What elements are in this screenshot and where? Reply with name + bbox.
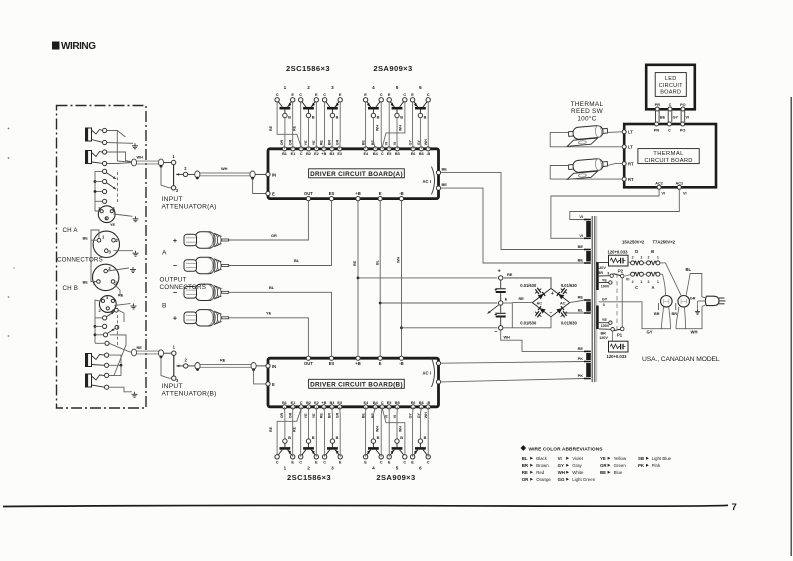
svg-text:0.01/630: 0.01/630 — [561, 320, 578, 325]
svg-text:2SC1586×3: 2SC1586×3 — [287, 473, 331, 482]
svg-text:Light Blue: Light Blue — [652, 456, 672, 461]
svg-text:VI: VI — [558, 456, 562, 461]
svg-text:RE: RE — [578, 346, 584, 351]
snubber cap SW 0.01/630 — [520, 311, 541, 325]
svg-text:B: B — [377, 115, 380, 120]
svg-text:THERMAL: THERMAL — [571, 101, 604, 108]
ground lower B — [132, 392, 138, 398]
wire BE1 board A to transformer — [441, 173, 584, 250]
svg-text:VI: VI — [662, 192, 666, 196]
svg-text:PO: PO — [680, 129, 686, 133]
svg-text:Violet: Violet — [572, 456, 584, 461]
attenuator B shield to terminal 3 — [161, 357, 171, 378]
svg-text:B: B — [312, 435, 315, 440]
svg-text:YE: YE — [304, 413, 308, 418]
svg-text:WH: WH — [399, 426, 403, 432]
svg-text:E: E — [379, 361, 382, 366]
phone jack B2 — [86, 374, 105, 387]
svg-text:Red: Red — [536, 470, 545, 475]
snubber cap NE 0.01/630 — [561, 283, 578, 294]
svg-text:100V: 100V — [601, 285, 610, 289]
circuit breaker SW2 — [678, 296, 690, 308]
svg-text:+: + — [551, 291, 554, 297]
svg-text:B: B — [424, 115, 427, 120]
svg-text:120V: 120V — [599, 336, 608, 340]
board A right pins BE BE / AC1 — [423, 167, 448, 195]
svg-text:5: 5 — [396, 465, 399, 470]
svg-text:E: E — [315, 92, 318, 97]
svg-text:BE: BE — [442, 167, 448, 172]
svg-text:GR: GR — [335, 139, 339, 145]
svg-text:B: B — [400, 435, 403, 440]
svg-text:-B: -B — [426, 152, 430, 156]
thermal board pins AC2 — [655, 181, 683, 189]
svg-text:PK: PK — [578, 373, 584, 378]
board A color labels — [280, 139, 428, 145]
transistor Q4 (board B) — [363, 435, 383, 470]
svg-text:0.01/630: 0.01/630 — [520, 320, 537, 325]
wire PK2 board B to transformer — [441, 379, 584, 382]
board B pin IN — [266, 364, 276, 369]
svg-text:E1: E1 — [291, 152, 296, 156]
svg-text:WIRE COLOR ABBREVIATIONS: WIRE COLOR ABBREVIATIONS — [529, 446, 604, 452]
svg-text:6: 6 — [419, 465, 422, 470]
svg-text:B: B — [651, 249, 654, 254]
jack A2 contacts — [103, 150, 107, 166]
svg-text:THERMAL: THERMAL — [653, 151, 684, 157]
wire -B branch to supply — [402, 327, 498, 329]
AC power plug — [690, 296, 726, 306]
svg-text:GY: GY — [558, 463, 564, 468]
svg-text:LED: LED — [665, 76, 677, 82]
svg-text:E: E — [272, 191, 275, 196]
svg-text:DRIVER CIRCUIT BOARD(B): DRIVER CIRCUIT BOARD(B) — [310, 381, 403, 388]
svg-text:B: B — [424, 435, 427, 440]
svg-text:White: White — [572, 470, 584, 475]
svg-text:B5: B5 — [395, 152, 400, 156]
svg-text:2: 2 — [307, 465, 310, 470]
svg-text:5: 5 — [396, 85, 399, 90]
svg-text:100°C: 100°C — [577, 114, 596, 122]
svg-text:GR: GR — [335, 412, 339, 418]
svg-text:OR: OR — [280, 412, 284, 418]
wire GR output A+ to OUT(A) — [229, 201, 308, 240]
wire bridge right to transformer RE — [570, 300, 585, 303]
driver circuit board A — [268, 149, 439, 199]
svg-text:BOARD: BOARD — [660, 90, 681, 96]
svg-text:E3: E3 — [337, 152, 342, 156]
fuses D B C A — [631, 261, 660, 276]
svg-text:1: 1 — [284, 465, 287, 470]
svg-text:GY: GY — [602, 297, 608, 301]
wires transistors to board A — [285, 102, 429, 149]
wire AC2 left VI to transformer — [551, 189, 665, 238]
svg-text:E: E — [339, 92, 342, 97]
board B pins top — [304, 356, 404, 366]
svg-text:YE: YE — [266, 311, 272, 316]
bridge rectifier D1-D4 — [532, 288, 569, 316]
transformer secondary pins — [578, 214, 591, 379]
svg-text:INPUT: INPUT — [162, 196, 183, 203]
svg-text:C: C — [381, 152, 384, 156]
label INPUT ATTENUATOR(B) — [162, 383, 217, 397]
cable B shield to board B E pin — [254, 370, 266, 384]
lower contacts B — [105, 353, 109, 389]
wire C1 bend RE board B — [269, 409, 301, 455]
svg-text:2: 2 — [648, 256, 650, 260]
svg-text:0.01/630: 0.01/630 — [561, 283, 578, 288]
svg-text:15A250V×2: 15A250V×2 — [622, 240, 645, 245]
svg-text:AC2: AC2 — [655, 181, 663, 185]
wires reed switch 2 — [550, 164, 622, 180]
wires XLR B large — [91, 268, 124, 298]
svg-text:C: C — [403, 92, 406, 97]
svg-text:BL: BL — [686, 267, 692, 272]
svg-text:T7A250V×2: T7A250V×2 — [653, 240, 676, 245]
cable A shield to board A E pin — [253, 178, 266, 193]
svg-text:RE: RE — [118, 294, 124, 298]
svg-text:REED SW: REED SW — [571, 108, 604, 115]
svg-text:OR: OR — [280, 139, 284, 145]
svg-text:BE: BE — [660, 116, 666, 120]
snubber 120+0.033 upper — [608, 250, 629, 267]
svg-text:+B: +B — [355, 361, 360, 366]
svg-text:VI: VI — [579, 233, 583, 238]
svg-text:B: B — [400, 115, 403, 120]
svg-text:RT: RT — [628, 177, 634, 182]
svg-text:C: C — [323, 460, 326, 465]
svg-text:WH: WH — [424, 139, 428, 145]
XLR B small — [99, 295, 117, 313]
svg-text:WH: WH — [691, 329, 698, 334]
svg-text:OR: OR — [522, 477, 529, 482]
svg-text:GY: GY — [409, 139, 413, 145]
XLR B large — [93, 264, 119, 290]
phone jack A2 — [86, 151, 103, 164]
svg-text:RE: RE — [578, 295, 584, 300]
svg-text:Green: Green — [614, 463, 627, 468]
svg-text:P1: P1 — [617, 333, 623, 338]
wire PK1 board B to transformer — [441, 362, 584, 364]
svg-text:RE: RE — [519, 296, 525, 301]
svg-text:Brown: Brown — [536, 463, 549, 468]
svg-text:E6: E6 — [411, 401, 416, 405]
board B right pins / AC1 — [423, 358, 441, 387]
transformer secondary winding bars — [586, 221, 591, 377]
svg-text:B2: B2 — [306, 401, 311, 405]
wire BE2 board A to transformer — [441, 188, 584, 263]
svg-text:D: D — [635, 249, 638, 254]
svg-text:BR: BR — [654, 312, 660, 316]
svg-text:B: B — [288, 115, 291, 120]
wire WH bus to plug — [676, 307, 702, 335]
svg-text:VI: VI — [579, 214, 583, 219]
svg-text:+: + — [173, 236, 177, 245]
label fuse ratings — [622, 240, 676, 245]
svg-text:BL: BL — [578, 308, 584, 313]
svg-text:WH: WH — [397, 257, 401, 263]
switch common bus B — [94, 300, 105, 343]
svg-text:RE: RE — [293, 426, 297, 432]
terminal E — [499, 297, 508, 306]
svg-text:AC I: AC I — [423, 371, 431, 376]
svg-text:WH: WH — [558, 470, 565, 475]
scan edge line right — [790, 97, 792, 556]
ground jack A — [132, 143, 138, 149]
svg-text:4: 4 — [372, 465, 375, 470]
svg-text:Light Green: Light Green — [572, 477, 596, 482]
svg-text:120+0.033: 120+0.033 — [607, 354, 628, 359]
wire + to bridge top — [503, 278, 551, 289]
svg-text:AC: AC — [560, 301, 566, 305]
svg-text:E5: E5 — [387, 152, 392, 156]
svg-text:BL: BL — [375, 259, 379, 265]
svg-text:WH: WH — [504, 334, 511, 339]
svg-text:Black: Black — [536, 456, 548, 461]
svg-text:VI: VI — [626, 278, 630, 282]
breaker SW1 leads — [660, 274, 671, 329]
svg-text:OUTPUT: OUTPUT — [160, 276, 187, 283]
svg-text:B3: B3 — [329, 401, 334, 405]
svg-text:WH: WH — [424, 412, 428, 418]
wire +B branch to supply — [358, 277, 497, 279]
cable RE attenuator B to board B — [188, 358, 266, 372]
svg-text:A: A — [651, 285, 654, 290]
voltage selector P2 — [607, 269, 629, 282]
svg-text:AC2: AC2 — [675, 181, 683, 185]
svg-text:120+0.033: 120+0.033 — [608, 250, 629, 255]
svg-text:LT: LT — [628, 145, 633, 150]
svg-text:VI: VI — [385, 415, 389, 418]
snubber cap NW 0.01/630 — [520, 283, 541, 294]
transformer primary taps — [599, 263, 614, 330]
label OUTPUT CONNECTORS — [160, 276, 207, 291]
svg-text:INPUT: INPUT — [162, 383, 183, 390]
svg-text:C: C — [380, 460, 383, 465]
wires reed switch 1 — [550, 132, 622, 147]
terminal +B RE — [498, 269, 513, 281]
svg-text:B3: B3 — [329, 152, 334, 156]
svg-text:E: E — [411, 92, 414, 97]
cable RE panel to attenuator B — [131, 345, 171, 358]
svg-text:RE: RE — [269, 426, 273, 432]
svg-text:IN: IN — [272, 364, 276, 369]
output connector A+ — [173, 232, 229, 248]
svg-text:B6: B6 — [419, 401, 424, 405]
wire C1 bend RE board A — [269, 102, 301, 147]
svg-text:PR: PR — [655, 103, 661, 107]
svg-text:+B: +B — [321, 401, 326, 405]
wire +B rail RE — [353, 201, 359, 356]
svg-text:C: C — [300, 401, 303, 405]
ground XLR A small — [113, 214, 138, 222]
svg-text:B: B — [336, 115, 339, 120]
svg-text:RE: RE — [137, 345, 143, 350]
snubber cap SE 0.01/630 BL — [561, 311, 578, 325]
svg-text:4: 4 — [372, 85, 375, 90]
margin specks — [8, 128, 15, 337]
svg-text:1: 1 — [640, 256, 642, 260]
svg-text:VI: VI — [686, 116, 690, 120]
svg-text:E: E — [388, 460, 391, 465]
wire AC2 right VI to transformer — [570, 189, 687, 219]
transistor Q6 (board A) — [410, 85, 430, 120]
svg-text:SB: SB — [638, 456, 644, 461]
svg-text:C: C — [276, 460, 279, 465]
transistor Q4 (board A) — [363, 85, 383, 120]
svg-text:RE: RE — [320, 140, 324, 146]
ground XLR A large — [133, 251, 139, 257]
ground XLR B large — [108, 267, 137, 273]
svg-text:B: B — [312, 115, 315, 120]
svg-text:RE: RE — [320, 413, 324, 419]
svg-text:BR: BR — [522, 463, 529, 468]
fuse labels — [632, 249, 659, 290]
bleeder switch arm — [488, 305, 499, 314]
svg-text:E: E — [505, 297, 508, 302]
output connector B- — [173, 284, 229, 300]
input attenuator B pot — [172, 345, 188, 384]
wire YE output B+ to OUT(B) — [229, 311, 308, 357]
wire C5 bend WH board B — [376, 409, 405, 455]
svg-text:GR: GR — [271, 233, 277, 238]
svg-text:3: 3 — [607, 272, 609, 276]
svg-text:C: C — [403, 460, 406, 465]
svg-text:BE: BE — [361, 140, 365, 146]
board A pin IN — [266, 172, 276, 177]
svg-text:E: E — [315, 460, 318, 465]
svg-text:YE: YE — [312, 140, 316, 145]
jack A1 contacts — [103, 128, 107, 144]
svg-text:B5: B5 — [395, 401, 400, 405]
svg-text:0.01/630: 0.01/630 — [520, 283, 537, 288]
svg-text:P2: P2 — [618, 269, 624, 274]
svg-text:YE: YE — [602, 318, 607, 322]
svg-text:USA., CANADIAN MODEL: USA., CANADIAN MODEL — [642, 356, 720, 363]
svg-text:YE: YE — [110, 223, 116, 227]
svg-text:B1: B1 — [282, 401, 287, 405]
svg-text:C: C — [381, 401, 384, 405]
transistor Q1 (board B) — [275, 435, 295, 470]
svg-text:RE: RE — [522, 470, 528, 475]
svg-text:B: B — [377, 435, 380, 440]
XLR A large — [93, 231, 119, 257]
LED board pins PR C PO — [655, 103, 686, 111]
switch contacts B — [103, 308, 125, 345]
svg-text:C: C — [299, 460, 302, 465]
svg-text:Pink: Pink — [652, 463, 661, 468]
svg-text:VI: VI — [683, 192, 687, 196]
phone jack B1 — [86, 354, 105, 367]
wires XLR A large — [91, 230, 133, 268]
svg-text:1: 1 — [657, 280, 659, 284]
ground XLR B small — [115, 304, 137, 310]
svg-text:AC I: AC I — [423, 179, 431, 184]
svg-text:E6: E6 — [411, 152, 416, 156]
svg-text:7: 7 — [732, 502, 737, 513]
wire WH -B to transformer RE — [501, 330, 585, 351]
svg-text:BR: BR — [598, 271, 604, 275]
svg-text:CIRCUIT BOARD: CIRCUIT BOARD — [644, 158, 692, 164]
svg-text:E: E — [411, 460, 414, 465]
svg-text:C: C — [276, 92, 279, 97]
svg-text:C: C — [427, 460, 430, 465]
terminal -B — [494, 326, 503, 336]
svg-text:RE: RE — [269, 125, 273, 131]
svg-text:Yellow: Yellow — [614, 456, 627, 461]
svg-text:0: 0 — [603, 303, 605, 307]
board B pin E — [266, 382, 275, 387]
svg-text:-B: -B — [399, 191, 403, 196]
svg-text:PO: PO — [680, 103, 686, 107]
connector LED to thermal — [656, 111, 690, 122]
thermal reed switch 1 — [566, 125, 609, 147]
svg-text:OUT: OUT — [304, 361, 313, 366]
wire C5 bend WH board A — [376, 102, 405, 147]
svg-text:E: E — [291, 92, 294, 97]
svg-text:GG: GG — [558, 477, 565, 482]
svg-text:BE: BE — [83, 281, 89, 285]
svg-text:GR: GR — [600, 463, 607, 468]
svg-text:WH: WH — [376, 426, 380, 432]
legend WIRE COLOR ABBREVIATIONS — [520, 445, 603, 452]
driver circuit board B — [268, 358, 439, 407]
svg-text:E5: E5 — [387, 401, 392, 405]
wire BL to transformer — [566, 312, 585, 314]
fuse feed stubs — [625, 262, 630, 277]
svg-text:BL: BL — [522, 456, 528, 461]
input attenuator A pot — [171, 154, 187, 193]
wires transistors to board B — [285, 407, 429, 457]
footer rule — [3, 505, 728, 506]
svg-text:B1: B1 — [282, 152, 287, 156]
svg-text:BE: BE — [371, 413, 375, 419]
svg-text:2SA909×3: 2SA909×3 — [376, 473, 415, 482]
svg-text:-B: -B — [399, 361, 403, 366]
svg-text:ES: ES — [329, 361, 335, 366]
svg-text:ATTENUATOR(A): ATTENUATOR(A) — [162, 204, 217, 211]
svg-text:+B: +B — [321, 152, 326, 156]
board A pin E — [266, 191, 275, 196]
svg-text:BR: BR — [328, 140, 332, 146]
svg-text:C: C — [669, 103, 672, 107]
switch contacts A — [103, 169, 118, 203]
attenuator A shield to terminal 3 — [161, 166, 171, 188]
wire GY 0-tap bus — [599, 302, 671, 335]
snubber 120+0.033 lower — [607, 341, 629, 359]
svg-text:CONNECTORS: CONNECTORS — [57, 257, 103, 264]
svg-text:BL: BL — [294, 258, 300, 263]
svg-text:+: + — [173, 314, 177, 323]
svg-text:C: C — [427, 92, 430, 97]
thermal reed switch 2 — [566, 158, 609, 180]
connector panel dashed box — [57, 106, 147, 409]
board A pins top — [282, 147, 430, 156]
svg-text:E: E — [272, 382, 275, 387]
transistor Q5 (board A) — [387, 85, 407, 120]
svg-text:B2: B2 — [306, 152, 311, 156]
svg-text:100V: 100V — [601, 324, 610, 328]
svg-text:RE: RE — [353, 260, 357, 266]
breaker trip stubs BR — [654, 303, 677, 316]
svg-text:YE: YE — [602, 278, 607, 282]
svg-text:PK: PK — [638, 463, 645, 468]
svg-text:WH: WH — [137, 155, 144, 160]
transistor Q3 (board A) — [322, 85, 342, 120]
LED circuit board — [646, 65, 695, 110]
breaker SW2 leads — [660, 263, 686, 329]
svg-text:LT: LT — [628, 130, 633, 135]
